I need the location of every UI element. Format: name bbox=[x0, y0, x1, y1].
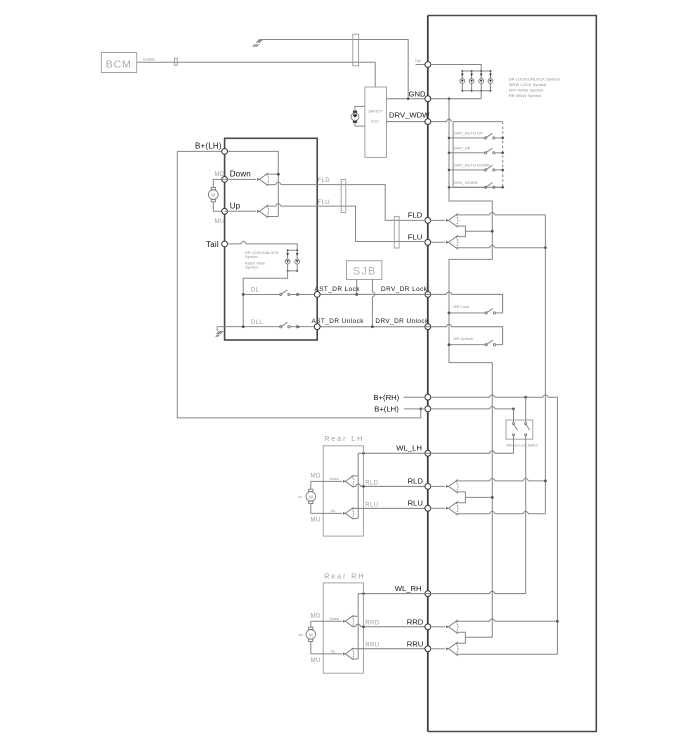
wire RRD out bbox=[352, 624, 425, 627]
node RLD bbox=[425, 484, 431, 490]
wire front feed down right bbox=[544, 248, 546, 514]
wire Tail to LED pair bbox=[227, 241, 297, 250]
svg-text:RRU: RRU bbox=[365, 643, 379, 649]
joint wedge rear RH down bbox=[343, 615, 354, 627]
svg-text:AST_DR Lock: AST_DR Lock bbox=[315, 286, 361, 293]
driver door module big box bbox=[428, 16, 597, 732]
switch DRV_AUTO DOWN bbox=[448, 163, 504, 172]
wire GND rail down right side bbox=[449, 99, 492, 638]
node B+(LH) bbox=[425, 406, 431, 412]
wire RRD node to wedge right bbox=[431, 626, 446, 628]
wire rear LH bottom link bbox=[352, 517, 359, 519]
connector C2 tall bbox=[353, 34, 359, 66]
connector C3 bbox=[341, 180, 346, 213]
node B+(RH) bbox=[425, 394, 431, 400]
wire B+(LH) stub left bbox=[404, 408, 425, 410]
wire MU to wedge bbox=[225, 210, 256, 212]
wire FLD node to wedge bbox=[431, 219, 446, 221]
svg-text:DL: DL bbox=[251, 288, 260, 294]
svg-text:Symbol: Symbol bbox=[245, 255, 258, 259]
svg-text:FRT WDW Symbol: FRT WDW Symbol bbox=[509, 87, 543, 92]
switch DR Unlock bbox=[448, 336, 503, 346]
svg-text:SAFETY: SAFETY bbox=[368, 109, 383, 113]
motor M2 rear LH bbox=[299, 481, 316, 513]
svg-text:Enable: Enable bbox=[143, 58, 155, 62]
rear RH door box bbox=[323, 583, 363, 673]
svg-text:Rear LH: Rear LH bbox=[324, 434, 364, 443]
node DRV_DR Unlock bbox=[425, 324, 431, 330]
svg-text:B+(LH): B+(LH) bbox=[374, 405, 399, 414]
SJB box bbox=[347, 261, 382, 280]
svg-text:Symbol: Symbol bbox=[245, 265, 258, 269]
node WL_LH bbox=[425, 450, 431, 456]
svg-text:Down: Down bbox=[230, 170, 251, 179]
LED pair assist bbox=[285, 249, 299, 272]
wire RLD node to wedge right bbox=[431, 485, 446, 487]
svg-text:B+(LH): B+(LH) bbox=[195, 141, 222, 150]
joint wedge rear LH down bbox=[343, 475, 354, 487]
svg-text:RRD: RRD bbox=[365, 621, 379, 627]
ground G2 front box bbox=[216, 327, 223, 337]
wire RLD out bbox=[352, 484, 425, 487]
svg-text:RLU: RLU bbox=[408, 499, 423, 508]
wire left loop to main B+(LH) bbox=[177, 151, 420, 418]
wire rear RH bottom link bbox=[352, 658, 359, 660]
ground G1 top bbox=[253, 40, 263, 47]
svg-text:Tail: Tail bbox=[415, 59, 421, 63]
switch DLL bbox=[217, 320, 314, 329]
wire B+(RH) into window lock switch bbox=[525, 397, 527, 420]
node AST_DR Lock bbox=[314, 292, 320, 298]
wire B+(RH) stub left bbox=[404, 396, 426, 398]
node MU bbox=[222, 208, 228, 214]
svg-text:RLU: RLU bbox=[365, 502, 378, 508]
svg-text:FLU: FLU bbox=[408, 232, 423, 241]
safety ECU U1 bbox=[365, 87, 387, 157]
svg-text:GND: GND bbox=[409, 90, 427, 99]
wire LED pair to switch rail bbox=[243, 271, 287, 327]
connector C1 on enable wire bbox=[175, 58, 178, 65]
svg-text:SJB: SJB bbox=[353, 266, 377, 278]
svg-text:FLD: FLD bbox=[318, 178, 331, 184]
wire RRD/RRU center tap bbox=[456, 632, 466, 643]
wire WL_RH bbox=[358, 591, 526, 594]
node MD bbox=[222, 177, 228, 183]
wire window lock out left bbox=[513, 439, 515, 453]
joint wedge rear LH up bbox=[343, 507, 354, 519]
svg-text:FLD: FLD bbox=[408, 211, 423, 220]
node AST_DR Unlock bbox=[314, 324, 320, 330]
wire DRV_DR Lock bbox=[317, 292, 502, 313]
motor M3 rear RH bbox=[299, 621, 316, 654]
svg-text:M: M bbox=[309, 494, 313, 499]
svg-text:DR LOCK/UNLOCK Symbol: DR LOCK/UNLOCK Symbol bbox=[509, 76, 560, 81]
svg-text:DRV_DR Unlock: DRV_DR Unlock bbox=[375, 318, 429, 325]
node FLU bbox=[425, 239, 431, 245]
svg-text:M: M bbox=[309, 632, 313, 637]
wire B+(LH) right bbox=[431, 406, 514, 409]
wire RLU node to wedge right bbox=[431, 507, 446, 509]
node DRV_DR Lock bbox=[425, 292, 431, 298]
svg-text:Up: Up bbox=[331, 509, 336, 513]
wire B+(LH) into window lock switch bbox=[513, 409, 515, 420]
joint wedge FLD bbox=[446, 214, 458, 228]
svg-text:Up: Up bbox=[230, 201, 241, 210]
svg-text:RLD: RLD bbox=[408, 477, 424, 486]
wire WL_RH drop in rear box bbox=[352, 594, 359, 659]
svg-text:ECU: ECU bbox=[371, 119, 379, 123]
joint wedge Up bbox=[257, 205, 269, 218]
switch box DRV window switches bbox=[453, 122, 503, 188]
lock/unlock legend text in box bbox=[245, 251, 279, 269]
svg-text:MU: MU bbox=[311, 658, 321, 664]
svg-text:FLU: FLU bbox=[318, 200, 331, 206]
node RRD bbox=[425, 624, 431, 630]
svg-text:RL: RL bbox=[299, 495, 303, 499]
svg-text:MU: MU bbox=[215, 219, 225, 225]
wire MD rear RH bbox=[311, 620, 342, 622]
svg-text:M: M bbox=[211, 193, 215, 198]
joint wedge RRU right bbox=[446, 642, 458, 656]
wire RRD top branch bbox=[456, 619, 558, 622]
wire RRU out bbox=[352, 648, 425, 650]
wire Tail to lamp cluster bbox=[431, 65, 482, 72]
svg-text:DRV_UP: DRV_UP bbox=[454, 146, 471, 151]
node WL_RH bbox=[425, 591, 431, 597]
wire FLU out of box bbox=[267, 204, 426, 242]
wire GND bbox=[387, 98, 482, 100]
wire lamp cluster to GND wire bbox=[480, 91, 482, 99]
wire RRU node to wedge right bbox=[431, 648, 446, 650]
wire WL_LH drop in rear box bbox=[352, 453, 359, 518]
node DRV_WDW bbox=[425, 119, 431, 125]
node Tail front bbox=[222, 241, 228, 247]
svg-text:RLD: RLD bbox=[365, 480, 378, 486]
svg-text:WL_LH: WL_LH bbox=[396, 444, 422, 453]
window lock switch box bbox=[506, 420, 533, 439]
motor M1 front bbox=[208, 179, 224, 211]
node GND bbox=[425, 96, 431, 102]
wire DRV_WDW bbox=[387, 119, 452, 122]
node RLU bbox=[425, 505, 431, 511]
joint wedge RRD right bbox=[446, 620, 458, 634]
symbol legend text bbox=[509, 76, 560, 98]
svg-text:B+(RH): B+(RH) bbox=[373, 393, 399, 402]
wire FLU wedge bottom branch bbox=[456, 245, 546, 248]
switch DRV_DOWN bbox=[448, 180, 504, 189]
wire FLD/FLU center tap bbox=[456, 226, 493, 237]
wire FLU node to wedge bbox=[431, 241, 446, 243]
svg-text:DR Lock: DR Lock bbox=[454, 304, 470, 309]
joint wedge RLD right bbox=[446, 480, 458, 494]
wire MD to wedge bbox=[225, 178, 256, 180]
connector C4 bbox=[394, 216, 399, 248]
svg-text:DRV_DR Lock: DRV_DR Lock bbox=[381, 286, 428, 293]
junction on GND wire bbox=[407, 97, 410, 100]
wire RLU bottom branch bbox=[456, 511, 546, 514]
lamp L1 beside ECU bbox=[351, 106, 365, 126]
svg-text:MD: MD bbox=[311, 614, 321, 620]
switch DRV_UP bbox=[448, 146, 504, 154]
wire SJB leg to lock bbox=[356, 280, 358, 295]
wire RLD/RLU center tap bbox=[456, 492, 493, 503]
front door switch box bbox=[225, 138, 318, 340]
wire FLD out of box bbox=[267, 182, 426, 220]
BCM box bbox=[101, 53, 136, 73]
wire Up wedge to B+ rail bbox=[267, 216, 279, 218]
svg-text:DRV_AUTO UP: DRV_AUTO UP bbox=[454, 131, 483, 136]
wire RRU bottom branch bbox=[456, 653, 558, 655]
node RRU bbox=[425, 646, 431, 652]
svg-text:Rear RH: Rear RH bbox=[324, 572, 365, 581]
wire B+(RH) right bbox=[431, 395, 558, 655]
svg-text:DRV_WDW: DRV_WDW bbox=[389, 111, 430, 120]
wire B+(LH) feed bbox=[177, 151, 278, 216]
joint wedge Down bbox=[257, 173, 269, 186]
wire FLD wedge top branch bbox=[456, 212, 546, 247]
wire MU rear LH bbox=[311, 512, 342, 514]
wire window lock out right down to WL_RH bbox=[525, 439, 527, 593]
svg-text:Up: Up bbox=[331, 649, 336, 653]
joint wedge RLU right bbox=[446, 501, 458, 515]
wire MU rear RH bbox=[311, 653, 342, 655]
joint wedge rear RH up bbox=[343, 648, 354, 660]
svg-text:WDW LOCK Symbol: WDW LOCK Symbol bbox=[509, 82, 547, 87]
node B+(LH) front bbox=[222, 149, 228, 155]
svg-text:DLL: DLL bbox=[251, 320, 263, 326]
svg-text:Window Lock Switch: Window Lock Switch bbox=[507, 443, 538, 447]
switch DR Lock bbox=[448, 304, 503, 314]
LED cluster (4 indicator lamps) bbox=[460, 70, 493, 92]
switch DL bbox=[242, 288, 315, 297]
svg-text:MD: MD bbox=[311, 474, 321, 480]
svg-text:RR WDW Symbol: RR WDW Symbol bbox=[509, 93, 541, 98]
svg-text:Tail: Tail bbox=[206, 240, 219, 249]
rear LH door box bbox=[323, 446, 363, 536]
wire Tail stub and node bbox=[415, 59, 431, 67]
wire RLU out bbox=[352, 507, 425, 509]
svg-text:Down: Down bbox=[330, 617, 340, 621]
node FLD bbox=[425, 218, 431, 224]
svg-text:DRV_DOWN: DRV_DOWN bbox=[454, 180, 478, 185]
svg-text:Down: Down bbox=[330, 477, 340, 481]
svg-text:MU: MU bbox=[311, 517, 321, 523]
wire MD rear LH bbox=[311, 480, 342, 482]
switch DRV_AUTO UP bbox=[448, 131, 504, 140]
wire Enable from BCM bbox=[137, 62, 376, 87]
wire WL_LH bbox=[358, 451, 513, 454]
joint wedge FLU bbox=[446, 235, 458, 249]
wire DRV_DR Unlock bbox=[317, 324, 502, 345]
switch window lock 2 bbox=[525, 420, 530, 439]
wire Down wedge to B+ rail bbox=[267, 173, 279, 175]
junction dots FLD/FLU taps bbox=[491, 230, 494, 233]
wire SJB leg to unlock bbox=[372, 280, 375, 327]
switch window lock 1 bbox=[513, 420, 518, 439]
svg-text:RRD: RRD bbox=[407, 617, 424, 626]
svg-text:RRU: RRU bbox=[407, 639, 424, 648]
svg-text:DR Unlock: DR Unlock bbox=[454, 336, 474, 341]
wire ground to GND node bbox=[260, 40, 409, 99]
svg-text:DRV_AUTO DOWN: DRV_AUTO DOWN bbox=[454, 163, 490, 168]
svg-text:WL_RH: WL_RH bbox=[395, 584, 422, 593]
svg-text:BCM: BCM bbox=[106, 59, 132, 71]
wire RLD top branch bbox=[456, 478, 546, 481]
